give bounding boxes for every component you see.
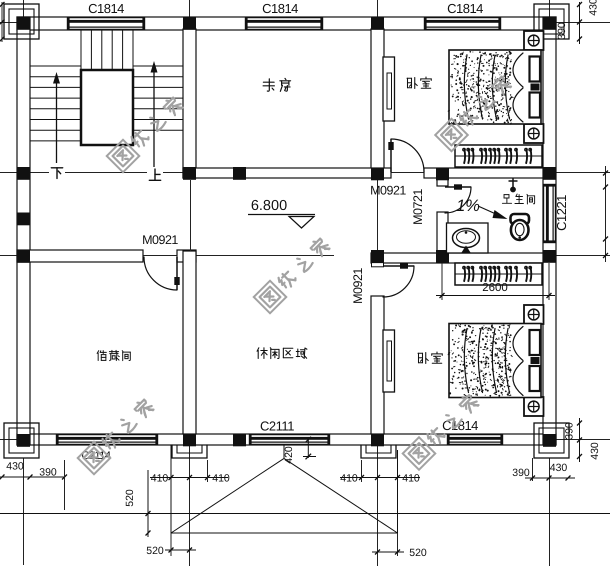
- svg-text:430: 430: [588, 0, 600, 16]
- svg-text:520: 520: [409, 547, 427, 559]
- svg-text:430: 430: [589, 442, 601, 460]
- svg-text:410: 410: [340, 473, 358, 485]
- svg-text:410: 410: [402, 473, 420, 485]
- svg-text:2600: 2600: [482, 282, 508, 294]
- svg-text:M0721: M0721: [411, 189, 425, 225]
- svg-text:1%: 1%: [456, 197, 480, 215]
- svg-text:390: 390: [556, 22, 568, 40]
- svg-text:M0921: M0921: [351, 268, 365, 304]
- svg-text:520: 520: [146, 545, 164, 557]
- svg-text:390: 390: [512, 467, 530, 479]
- svg-text:410: 410: [151, 473, 169, 485]
- svg-text:C1221: C1221: [554, 195, 569, 231]
- svg-text:M0921: M0921: [370, 184, 406, 198]
- svg-text:410: 410: [212, 473, 230, 485]
- svg-text:6.800: 6.800: [251, 198, 287, 214]
- svg-text:C1814: C1814: [447, 1, 483, 16]
- svg-text:C1814: C1814: [88, 1, 124, 16]
- svg-text:C1814: C1814: [262, 1, 298, 16]
- svg-text:430: 430: [6, 461, 24, 473]
- svg-text:520: 520: [124, 489, 136, 507]
- svg-text:390: 390: [39, 467, 57, 479]
- svg-text:M0921: M0921: [142, 233, 178, 247]
- svg-text:430: 430: [550, 462, 568, 474]
- svg-text:390: 390: [564, 422, 576, 440]
- svg-text:C2111: C2111: [260, 419, 294, 434]
